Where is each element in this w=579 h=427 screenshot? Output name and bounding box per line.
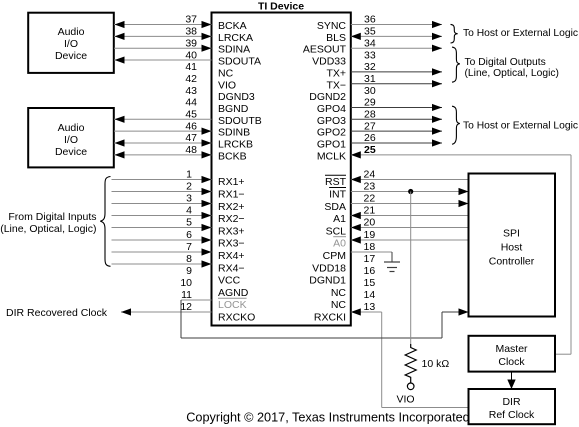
pin 10 AGND wire <box>180 277 248 299</box>
svg-text:LOCK: LOCK <box>218 299 247 311</box>
IC U1 label TI Device <box>258 0 304 12</box>
svg-text:3: 3 <box>186 193 192 205</box>
svg-text:10: 10 <box>180 277 192 289</box>
svg-text:7: 7 <box>186 241 192 253</box>
pin 11 LOCK wire <box>181 289 247 311</box>
svg-text:NC: NC <box>331 299 347 311</box>
pin 38 LRCKA wire <box>114 26 253 44</box>
pin 12 RXCKO wire <box>121 301 255 323</box>
svg-text:35: 35 <box>364 26 376 38</box>
pin 46 SDINB wire <box>114 120 250 138</box>
annotation DIR Recovered Clock <box>6 307 108 319</box>
svg-text:5: 5 <box>186 217 192 229</box>
wire MCLK pin 25 to Master Clock <box>351 151 571 354</box>
svg-text:AESOUT: AESOUT <box>303 44 347 56</box>
svg-text:47: 47 <box>185 132 197 144</box>
svg-text:RX2+: RX2+ <box>218 201 245 213</box>
svg-text:To Digital Outputs: To Digital Outputs <box>465 57 546 68</box>
svg-text:2: 2 <box>186 181 192 193</box>
pin 29 GPO4 wire <box>317 97 442 115</box>
net label VIO <box>396 393 414 405</box>
VIO terminal circle <box>407 383 414 390</box>
svg-text:RX4−: RX4− <box>218 262 245 274</box>
svg-text:Ref Clock: Ref Clock <box>489 409 535 421</box>
svg-text:32: 32 <box>364 61 376 73</box>
svg-text:37: 37 <box>185 14 197 26</box>
svg-text:34: 34 <box>364 37 376 49</box>
svg-text:SDOUTA: SDOUTA <box>218 56 261 68</box>
pin 40 SDOUTA wire <box>114 49 261 67</box>
svg-text:SDA: SDA <box>324 201 346 213</box>
pin 13 RXCKI wire <box>314 301 469 407</box>
pin 32 TX+ wire <box>326 61 442 79</box>
svg-text:33: 33 <box>364 49 376 61</box>
svg-text:39: 39 <box>185 37 197 49</box>
svg-text:I/O: I/O <box>64 134 78 146</box>
pin 1 RX1+ wire <box>112 169 245 189</box>
svg-text:TX−: TX− <box>326 79 346 91</box>
svg-text:9: 9 <box>186 265 192 277</box>
svg-text:RXCKI: RXCKI <box>314 312 346 324</box>
svg-text:SDINA: SDINA <box>218 44 250 56</box>
svg-text:28: 28 <box>364 109 376 121</box>
svg-text:Device: Device <box>55 146 87 158</box>
pin 9 VCC wire <box>186 265 240 286</box>
svg-text:24: 24 <box>364 169 376 181</box>
svg-text:TX+: TX+ <box>326 67 346 79</box>
pin 43 DGND3 wire <box>185 85 255 103</box>
svg-text:VIO: VIO <box>218 79 236 91</box>
svg-text:29: 29 <box>364 97 376 109</box>
svg-text:TI Device: TI Device <box>258 0 304 12</box>
svg-text:15: 15 <box>364 277 376 289</box>
svg-text:38: 38 <box>185 26 197 38</box>
svg-text:20: 20 <box>364 217 376 229</box>
svg-text:BCKA: BCKA <box>218 20 247 32</box>
svg-text:27: 27 <box>364 120 376 132</box>
svg-text:(Line, Optical, Logic): (Line, Optical, Logic) <box>0 223 96 235</box>
svg-text:23: 23 <box>364 181 376 193</box>
svg-text:AGND: AGND <box>218 287 249 299</box>
pin 33 VDD33 wire <box>312 49 376 67</box>
svg-text:13: 13 <box>364 301 376 313</box>
pin 27 GPO2 wire <box>317 120 442 138</box>
svg-text:DIR: DIR <box>502 396 521 408</box>
pin 44 BGND wire <box>185 97 248 115</box>
pin 39 SDINA wire <box>114 37 250 55</box>
svg-text:DGND1: DGND1 <box>309 275 346 287</box>
svg-text:SYNC: SYNC <box>317 20 347 32</box>
svg-text:30: 30 <box>364 85 376 97</box>
pin 28 GPO3 wire <box>317 109 442 127</box>
svg-text:6: 6 <box>186 229 192 241</box>
svg-text:31: 31 <box>364 73 376 85</box>
svg-text:RX3+: RX3+ <box>218 225 245 237</box>
svg-text:DGND3: DGND3 <box>218 91 255 103</box>
svg-text:1: 1 <box>186 169 192 181</box>
svg-text:43: 43 <box>185 85 197 97</box>
svg-text:41: 41 <box>185 61 197 73</box>
pin 35 BLS wire <box>326 26 442 44</box>
svg-text:RX4+: RX4+ <box>218 250 245 262</box>
svg-text:4: 4 <box>186 205 192 217</box>
svg-text:VIO: VIO <box>396 393 414 405</box>
svg-text:A1: A1 <box>333 213 346 225</box>
annotation To Host or External Logic (top) <box>463 28 578 39</box>
svg-text:Audio: Audio <box>58 122 85 134</box>
svg-text:(Line, Optical, Logic): (Line, Optical, Logic) <box>465 68 559 79</box>
pin 36 SYNC wire <box>317 14 442 32</box>
pin 16 DGND1 wire <box>309 265 375 286</box>
svg-text:17: 17 <box>364 253 376 265</box>
svg-text:NC: NC <box>218 67 234 79</box>
resistor 10 kOhm <box>405 344 416 383</box>
pin 37 BCKA wire <box>114 14 247 32</box>
svg-text:A0: A0 <box>333 238 346 250</box>
svg-text:GPO4: GPO4 <box>317 103 346 115</box>
svg-text:RX3−: RX3− <box>218 238 245 250</box>
pin 4 RX2− wire <box>112 205 245 225</box>
svg-text:From Digital Inputs: From Digital Inputs <box>8 211 96 223</box>
pin 22 SDA wire <box>324 193 468 213</box>
pin 45 SDOUTB wire <box>114 109 262 127</box>
svg-text:DIR Recovered Clock: DIR Recovered Clock <box>6 307 108 319</box>
svg-text:18: 18 <box>364 241 376 253</box>
svg-text:RX2−: RX2− <box>218 213 245 225</box>
svg-text:Clock: Clock <box>498 356 525 368</box>
svg-text:LRCKA: LRCKA <box>218 32 253 44</box>
pin 30 DGND2 wire <box>309 85 376 103</box>
svg-text:To Host or External Logic: To Host or External Logic <box>463 121 578 132</box>
pin 25 MCLK wire <box>317 144 376 162</box>
svg-text:VDD33: VDD33 <box>312 56 346 68</box>
svg-text:VCC: VCC <box>218 275 241 287</box>
svg-text:10 kΩ: 10 kΩ <box>422 358 450 370</box>
svg-text:16: 16 <box>364 265 376 277</box>
value label 10 kOhm <box>422 358 450 370</box>
svg-text:BLS: BLS <box>326 32 346 44</box>
DIR ref clock box <box>469 389 556 424</box>
svg-text:RST: RST <box>325 176 347 188</box>
svg-text:12: 12 <box>180 301 192 313</box>
pin 5 RX3+ wire <box>112 217 245 238</box>
svg-text:11: 11 <box>181 289 192 301</box>
svg-text:Device: Device <box>55 50 87 62</box>
svg-text:21: 21 <box>364 205 376 217</box>
svg-text:14: 14 <box>364 289 376 301</box>
svg-text:I/O: I/O <box>64 38 78 50</box>
svg-text:19: 19 <box>364 229 376 241</box>
pin 24 RST wire <box>325 169 469 189</box>
svg-text:RX1−: RX1− <box>218 189 245 201</box>
svg-text:SDINB: SDINB <box>218 127 250 139</box>
master clock box <box>469 336 556 372</box>
svg-text:GPO1: GPO1 <box>317 139 346 151</box>
svg-text:SPI: SPI <box>503 227 520 239</box>
annotation From Digital Inputs <box>0 211 96 235</box>
ground <box>384 252 400 272</box>
annotation To Digital Outputs <box>465 57 559 79</box>
pin 7 RX4+ wire <box>112 241 245 262</box>
brace to digital outputs <box>452 47 460 82</box>
svg-text:GPO3: GPO3 <box>317 115 346 127</box>
svg-text:48: 48 <box>185 144 197 156</box>
svg-text:8: 8 <box>186 253 192 265</box>
wire pull-up vertical <box>410 192 412 345</box>
pin 15 NC wire <box>331 277 376 299</box>
svg-text:CPM: CPM <box>323 250 346 262</box>
svg-text:46: 46 <box>185 120 197 132</box>
svg-text:Master: Master <box>495 343 528 355</box>
pin 48 BCKB wire <box>114 144 247 162</box>
pin 31 TX− wire <box>326 73 442 91</box>
pin 42 VIO wire <box>185 73 236 91</box>
svg-text:NC: NC <box>331 287 347 299</box>
svg-text:22: 22 <box>364 193 376 205</box>
svg-text:Copyright © 2017, Texas Instru: Copyright © 2017, Texas Instruments Inco… <box>186 410 469 424</box>
svg-text:INT: INT <box>329 189 347 201</box>
pin 8 RX4− wire <box>112 253 245 274</box>
svg-text:GPO2: GPO2 <box>317 127 346 139</box>
svg-text:BGND: BGND <box>218 103 249 115</box>
wire master clock to DIR ref clock <box>507 372 515 389</box>
svg-text:DGND2: DGND2 <box>309 91 346 103</box>
svg-text:Audio: Audio <box>58 26 85 38</box>
svg-text:SCL: SCL <box>326 225 347 237</box>
SPI host controller box <box>469 174 556 317</box>
svg-text:VDD18: VDD18 <box>312 262 346 274</box>
svg-text:36: 36 <box>364 14 376 26</box>
svg-text:42: 42 <box>185 73 197 85</box>
svg-text:LRCKB: LRCKB <box>218 139 253 151</box>
wire LOCK pin 11 route to SPI <box>181 300 469 338</box>
brace to host or external logic (bottom) <box>452 106 460 144</box>
svg-text:Controller: Controller <box>489 255 535 267</box>
svg-text:BCKB: BCKB <box>218 150 247 162</box>
svg-text:To Host or External Logic: To Host or External Logic <box>463 28 578 39</box>
svg-text:RX1+: RX1+ <box>218 176 245 188</box>
svg-text:Host: Host <box>501 241 523 253</box>
pin 26 GPO1 wire <box>317 132 442 150</box>
pin 34 AESOUT wire <box>303 37 442 55</box>
copyright text <box>186 410 469 424</box>
pin 14 NC wire <box>331 289 376 311</box>
pin 41 NC wire <box>185 61 233 79</box>
svg-text:MCLK: MCLK <box>317 150 346 162</box>
svg-text:RXCKO: RXCKO <box>218 312 255 324</box>
brace from digital inputs <box>100 177 110 267</box>
pin 23 INT wire <box>329 181 468 201</box>
node junction dot on INT line <box>408 189 413 194</box>
annotation To Host or External Logic (bottom) <box>463 121 578 132</box>
svg-text:SDOUTB: SDOUTB <box>218 115 262 127</box>
audio I/O device box 1 <box>28 13 114 73</box>
pin 20 SCL wire <box>326 217 469 238</box>
pin 47 LRCKB wire <box>114 132 253 150</box>
pin 3 RX2+ wire <box>112 193 245 213</box>
brace to host or external logic (top) <box>451 24 458 43</box>
pin 21 A1 wire <box>333 205 468 225</box>
IC U1 TI Device box <box>212 13 351 326</box>
pin 2 RX1− wire <box>112 181 245 201</box>
pin 17 VDD18 wire <box>312 253 375 274</box>
pin 19 A0 wire <box>333 229 468 250</box>
audio I/O device box 2 <box>28 108 114 167</box>
pin 18 CPM wire <box>323 241 392 262</box>
svg-text:25: 25 <box>364 144 376 156</box>
svg-text:44: 44 <box>185 97 197 109</box>
svg-text:45: 45 <box>185 109 197 121</box>
pin 6 RX3− wire <box>112 229 245 250</box>
svg-text:40: 40 <box>185 49 197 61</box>
svg-text:26: 26 <box>364 132 376 144</box>
